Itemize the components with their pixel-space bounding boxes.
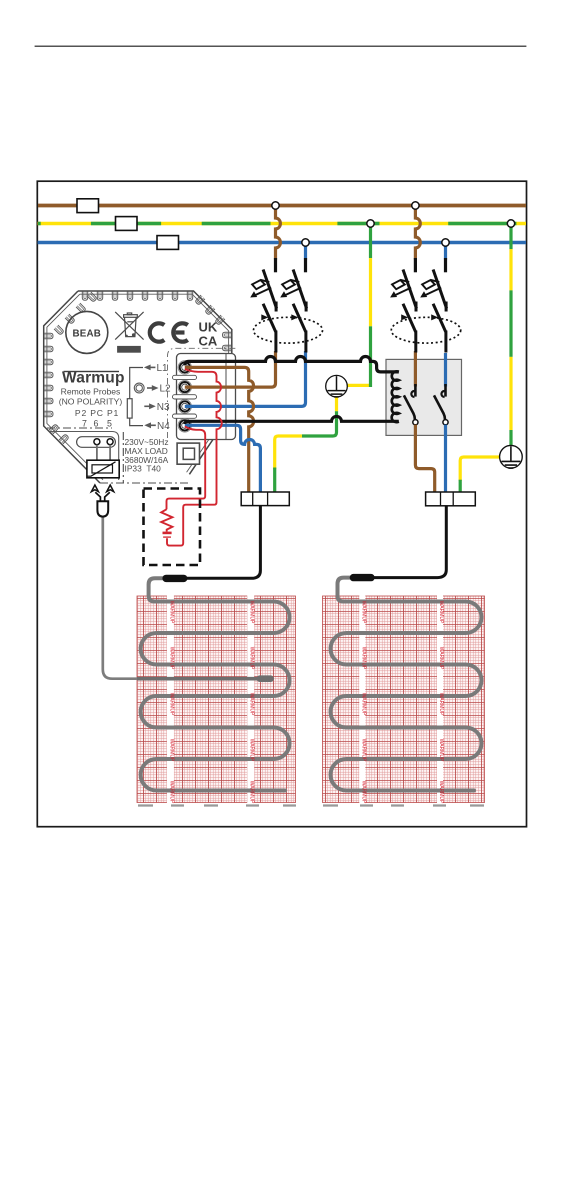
svg-text:Remote Probes: Remote Probes <box>61 387 121 397</box>
svg-text:(NO POLARITY): (NO POLARITY) <box>59 397 123 407</box>
svg-text:5: 5 <box>107 419 112 429</box>
svg-text:WARMUP: WARMUP <box>249 647 255 670</box>
svg-text:UK: UK <box>199 320 218 335</box>
svg-text:WARMUP: WARMUP <box>360 739 366 762</box>
svg-text:L2: L2 <box>160 384 172 395</box>
svg-text:WARMUP: WARMUP <box>168 693 174 716</box>
svg-text:WARMUP: WARMUP <box>249 601 255 624</box>
svg-text:WARMUP: WARMUP <box>360 601 366 624</box>
svg-text:7: 7 <box>82 419 87 429</box>
svg-text:WARMUP: WARMUP <box>249 781 255 804</box>
svg-text:IP33 T40: IP33 T40 <box>125 464 162 474</box>
svg-text:BEAB: BEAB <box>73 329 102 340</box>
svg-text:WARMUP: WARMUP <box>249 739 255 762</box>
svg-text:N3: N3 <box>157 402 170 413</box>
svg-text:WARMUP: WARMUP <box>168 601 174 624</box>
svg-text:WARMUP: WARMUP <box>438 647 444 670</box>
svg-text:P2 PC P1: P2 PC P1 <box>75 408 119 418</box>
svg-text:WARMUP: WARMUP <box>360 693 366 716</box>
svg-text:WARMUP: WARMUP <box>168 781 174 804</box>
svg-text:L1: L1 <box>157 363 169 374</box>
svg-text:WARMUP: WARMUP <box>360 647 366 670</box>
svg-text:WARMUP: WARMUP <box>168 647 174 670</box>
svg-text:WARMUP: WARMUP <box>438 739 444 762</box>
svg-text:WARMUP: WARMUP <box>438 781 444 804</box>
svg-text:N4: N4 <box>157 421 170 432</box>
svg-text:WARMUP: WARMUP <box>249 693 255 716</box>
svg-text:WARMUP: WARMUP <box>360 781 366 804</box>
svg-text:WARMUP: WARMUP <box>438 693 444 716</box>
svg-text:WARMUP: WARMUP <box>438 601 444 624</box>
svg-text:CA: CA <box>199 334 218 349</box>
svg-text:WARMUP: WARMUP <box>168 739 174 762</box>
svg-text:6: 6 <box>94 419 99 429</box>
